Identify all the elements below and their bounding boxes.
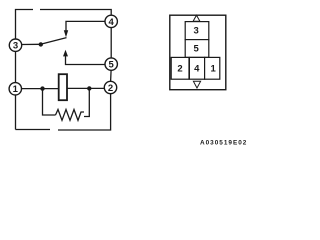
svg-text:1: 1 [211,63,217,74]
switch arm [41,38,67,45]
resistor R zigzag [56,110,85,121]
connector keying triangle down [193,81,200,88]
junction dot B [87,86,91,90]
svg-text:4: 4 [109,17,115,28]
wire terminal4 to terminal5 [110,27,112,58]
coil box [59,74,67,100]
resistor branch right riser [84,88,89,116]
connector cavity 4 [189,57,204,79]
connector keying triangle up [193,15,200,21]
svg-text:1: 1 [13,84,19,95]
up arrowhead [63,50,68,57]
svg-text:5: 5 [109,60,115,71]
wire terminal4 to down-arrow [66,21,105,30]
terminal circle 2 [104,81,116,93]
connector cavity 3 [185,22,209,40]
connector outer box [170,15,226,90]
wire circle3 to pivot [22,43,41,45]
terminal circle 5 [105,58,117,70]
terminal circle 3 [9,39,21,51]
connector cavity 5 [185,40,209,58]
relay case top border [16,10,112,29]
wire coil to terminal2 [67,87,104,89]
pivot dot [39,42,43,46]
relay case left border [15,28,17,130]
terminal circle 4 [105,15,117,27]
svg-text:A030519E02: A030519E02 [200,140,247,147]
relay case bottom border [16,94,111,130]
down arrowhead [64,30,68,37]
svg-text:4: 4 [194,63,200,74]
connector cavity 1 [205,57,220,79]
svg-text:3: 3 [13,41,18,52]
wire terminal1 to coil [22,88,59,90]
terminal circle 1 [9,83,21,95]
svg-text:3: 3 [194,25,199,36]
wire terminal5 to terminal2 [110,70,113,82]
svg-text:2: 2 [177,63,182,74]
connector cavity 2 [171,57,189,79]
resistor branch left drop [43,89,56,115]
svg-text:2: 2 [108,83,113,94]
junction dot A [40,86,44,90]
svg-text:5: 5 [194,44,200,55]
wire up-arrow to terminal5 [66,56,105,65]
